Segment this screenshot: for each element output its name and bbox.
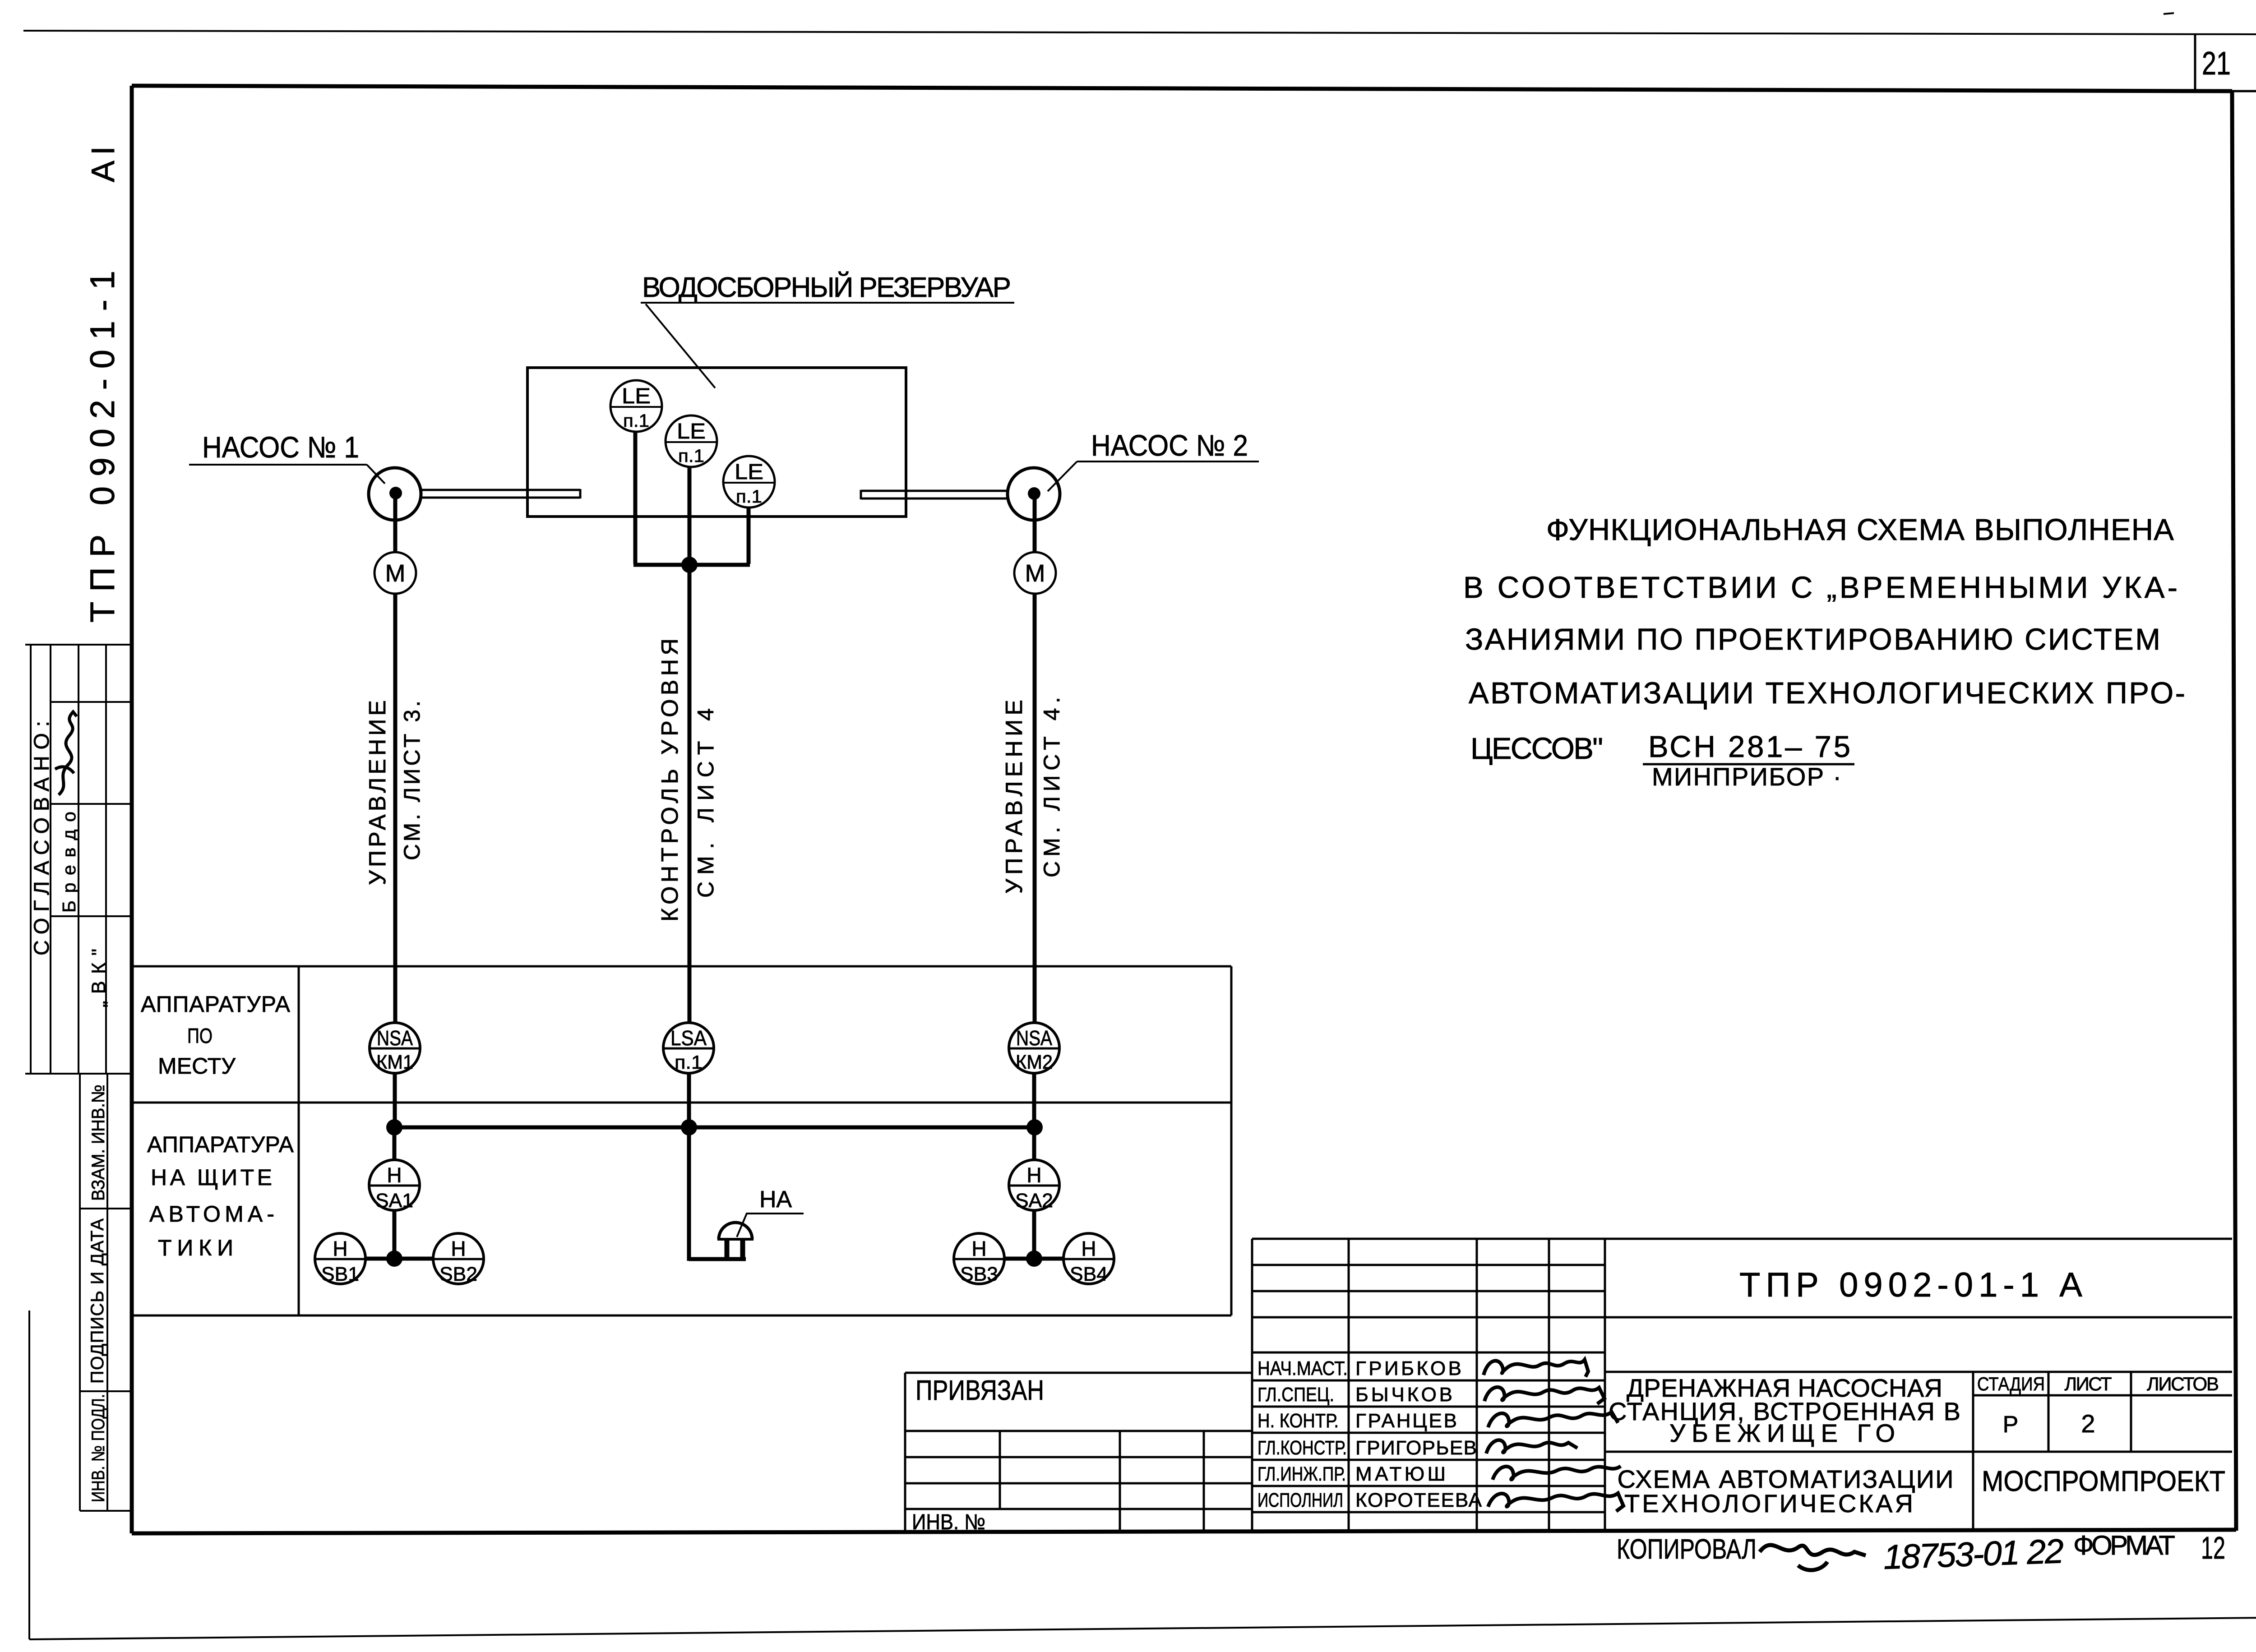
svg-text:АІ: АІ xyxy=(85,146,121,182)
wire motor M1 down xyxy=(393,594,398,1024)
svg-text:SA1: SA1 xyxy=(375,1190,413,1212)
button H SB2 xyxy=(433,1233,484,1285)
svg-text:LSA: LSA xyxy=(670,1026,707,1050)
svg-text:ИНВ. №: ИНВ. № xyxy=(912,1510,985,1534)
svg-text:Н: Н xyxy=(1081,1237,1096,1260)
svg-text:21: 21 xyxy=(2202,46,2231,82)
svg-text:ТЕХНОЛОГИЧЕСКАЯ: ТЕХНОЛОГИЧЕСКАЯ xyxy=(1624,1489,1913,1518)
wire SB3-SB4 xyxy=(1004,1257,1064,1261)
svg-text:2: 2 xyxy=(2081,1409,2095,1438)
svg-text:КОРОТЕЕВА: КОРОТЕЕВА xyxy=(1355,1489,1482,1511)
reservoir tank xyxy=(527,368,906,517)
svg-text:КОПИРОВАЛ: КОПИРОВАЛ xyxy=(1617,1534,1757,1565)
svg-text:Н: Н xyxy=(1026,1163,1041,1187)
wire LE1 drop xyxy=(633,431,638,564)
svg-text:АППАРАТУРА: АППАРАТУРА xyxy=(141,992,291,1017)
svg-text:УПРАВЛЕНИЕ: УПРАВЛЕНИЕ xyxy=(365,700,391,885)
button H SB3 xyxy=(954,1233,1004,1285)
instrument NSA KM1 xyxy=(370,1023,420,1073)
signature scribble Grigoriev xyxy=(1486,1440,1577,1454)
label Apparatura po mestu xyxy=(141,992,291,1079)
signature scribble Koroteeva xyxy=(1488,1493,1623,1511)
svg-text:SA2: SA2 xyxy=(1015,1190,1053,1212)
svg-text:УБЕЖИЩЕ ГО: УБЕЖИЩЕ ГО xyxy=(1669,1419,1895,1447)
motor M1 xyxy=(374,552,416,594)
svg-text:ТПР 0902-01-1 А: ТПР 0902-01-1 А xyxy=(1739,1266,2082,1304)
svg-text:Н А: Н А xyxy=(759,1186,792,1213)
level sensor LE p.1 (third) xyxy=(723,456,775,508)
svg-text:ТИКИ: ТИКИ xyxy=(158,1235,233,1260)
svg-text:ГРИГОРЬЕВ: ГРИГОРЬЕВ xyxy=(1355,1437,1477,1459)
switch H SA2 xyxy=(1009,1160,1059,1212)
svg-text:В СООТВЕТСТВИИ С „ВРЕМЕННЫМИ: В СООТВЕТСТВИИ С „ВРЕМЕННЫМИ УКА- xyxy=(1463,571,2177,605)
signature scribble Bychkov xyxy=(1484,1387,1604,1404)
svg-text:NSA: NSA xyxy=(377,1026,413,1050)
signature scribble Grantsev xyxy=(1488,1412,1618,1427)
svg-text:п.1: п.1 xyxy=(736,487,762,507)
wire level signal main drop xyxy=(688,565,692,1024)
wire SA2 to buttons xyxy=(1032,1210,1036,1259)
svg-text:LE: LE xyxy=(677,420,706,443)
pump P2 xyxy=(1008,468,1060,520)
button H SB1 xyxy=(315,1233,365,1285)
svg-text:ГЛ.СПЕЦ.: ГЛ.СПЕЦ. xyxy=(1257,1384,1334,1406)
svg-text:НАЧ.МАСТ.: НАЧ.МАСТ. xyxy=(1257,1357,1348,1380)
svg-text:КМ1: КМ1 xyxy=(376,1051,413,1073)
wire pump2 to motor xyxy=(1033,494,1037,553)
svg-text:СМ. ЛИСТ 3.: СМ. ЛИСТ 3. xyxy=(399,701,425,860)
svg-text:LE: LE xyxy=(735,460,763,484)
wire NSA KM1 to bus xyxy=(393,1073,397,1127)
svg-text:ЦЕССОВ": ЦЕССОВ" xyxy=(1470,732,1603,766)
node SB junction right xyxy=(1026,1251,1042,1267)
label Apparatura na shchite avtomatiki xyxy=(147,1132,294,1260)
svg-text:БЫЧКОВ: БЫЧКОВ xyxy=(1355,1384,1452,1406)
svg-text:ГРИБКОВ: ГРИБКОВ xyxy=(1355,1357,1461,1380)
signature scribble (approval) xyxy=(55,712,77,795)
svg-text:МАТЮШ: МАТЮШ xyxy=(1355,1463,1446,1485)
wire SA1 to buttons xyxy=(393,1210,397,1259)
svg-text:п.1: п.1 xyxy=(623,411,649,431)
svg-text:ТПР 0902-01-1: ТПР 0902-01-1 xyxy=(83,271,122,623)
label pump 2: Nasos No 2 xyxy=(1048,429,1259,491)
svg-text:НАСОС № 2: НАСОС № 2 xyxy=(1091,429,1248,462)
svg-text:Н: Н xyxy=(971,1237,986,1260)
pump P1 xyxy=(369,468,421,520)
wire SB1-SB2 xyxy=(365,1257,433,1261)
horn HA (sound alarm) xyxy=(717,1223,754,1260)
sheet number box 21 xyxy=(2164,13,2256,91)
svg-text:МОСПРОМПРОЕКТ: МОСПРОМПРОЕКТ xyxy=(1982,1465,2225,1497)
svg-text:ЛИСТОВ: ЛИСТОВ xyxy=(2147,1373,2219,1394)
svg-text:Н. КОНТР.: Н. КОНТР. xyxy=(1257,1410,1339,1432)
node bus-KM1 xyxy=(386,1119,402,1135)
svg-text:ПОДПИСЬ И ДАТА: ПОДПИСЬ И ДАТА xyxy=(88,1218,107,1384)
svg-text:ВСН 281– 75: ВСН 281– 75 xyxy=(1648,730,1850,764)
node junction dot xyxy=(681,557,698,573)
label pump 1: Nasos No 1 xyxy=(189,430,385,484)
svg-text:МИНПРИБОР ·: МИНПРИБОР · xyxy=(1652,762,1841,791)
svg-text:12: 12 xyxy=(2201,1530,2225,1565)
svg-text:АВТОМА-: АВТОМА- xyxy=(149,1201,274,1227)
wire motor M2 down xyxy=(1033,594,1037,1024)
svg-text:SB2: SB2 xyxy=(439,1263,477,1285)
svg-text:ВЗАМ. ИНВ.№: ВЗАМ. ИНВ.№ xyxy=(88,1084,108,1201)
wire junction bar under reservoir xyxy=(633,563,750,567)
svg-text:СМ. ЛИСТ 4: СМ. ЛИСТ 4 xyxy=(693,708,718,898)
svg-text:ГЛ.ИНЖ.ПР.: ГЛ.ИНЖ.ПР. xyxy=(1257,1463,1346,1485)
instrument LSA p.1 xyxy=(663,1023,714,1073)
svg-text:ГРАНЦЕВ: ГРАНЦЕВ xyxy=(1355,1410,1457,1432)
node bus-LSA xyxy=(681,1119,697,1135)
soglasovano sidebar table xyxy=(25,645,132,1074)
svg-text:М: М xyxy=(385,560,406,587)
lower sidebar strip xyxy=(80,1074,132,1511)
svg-text:SB1: SB1 xyxy=(321,1263,359,1285)
svg-text:ИСПОЛНИЛ: ИСПОЛНИЛ xyxy=(1257,1489,1343,1511)
label HA xyxy=(737,1186,804,1237)
level sensor LE p.1 (second) xyxy=(666,415,717,467)
wire pump1 to motor xyxy=(393,494,398,553)
switch H SA1 xyxy=(369,1160,420,1212)
wire LSA to horn xyxy=(689,1257,746,1261)
svg-text:АВТОМАТИЗАЦИИ ТЕХНОЛОГИЧЕСКИХ: АВТОМАТИЗАЦИИ ТЕХНОЛОГИЧЕСКИХ ПРО- xyxy=(1469,676,2185,710)
wire NSA KM2 to bus xyxy=(1032,1073,1036,1127)
svg-text:НАСОС № 1: НАСОС № 1 xyxy=(202,430,359,464)
svg-text:ЛИСТ: ЛИСТ xyxy=(2065,1373,2112,1394)
svg-text:ИНВ. № ПОДЛ.: ИНВ. № ПОДЛ. xyxy=(88,1394,108,1502)
wire LE3 drop xyxy=(747,507,751,564)
svg-text:LE: LE xyxy=(622,384,651,408)
svg-text:Р: Р xyxy=(2003,1412,2019,1438)
leader to reservoir xyxy=(646,304,715,388)
svg-text:Бревдо: Бревдо xyxy=(59,812,79,913)
signature table labels xyxy=(1257,1357,1482,1511)
pipe from pump 2 to reservoir xyxy=(861,490,1007,499)
svg-text:ГЛ.КОНСТР.: ГЛ.КОНСТР. xyxy=(1257,1437,1347,1459)
svg-text:МЕСТУ: МЕСТУ xyxy=(158,1053,236,1079)
svg-text:Н: Н xyxy=(387,1163,402,1187)
signature scribble Matyush xyxy=(1493,1466,1621,1480)
svg-text:УПРАВЛЕНИЕ: УПРАВЛЕНИЕ xyxy=(1001,700,1027,894)
svg-text:SB4: SB4 xyxy=(1070,1263,1108,1285)
svg-text:ВОДОСБОРНЫЙ РЕЗЕРВУАР: ВОДОСБОРНЫЙ РЕЗЕРВУАР xyxy=(642,272,1011,303)
svg-text:ФУНКЦИОНАЛЬНАЯ СХЕМА ВЫПОЛНЕ: ФУНКЦИОНАЛЬНАЯ СХЕМА ВЫПОЛНЕНА xyxy=(1546,513,2174,547)
svg-text:ФОРМАТ: ФОРМАТ xyxy=(2073,1530,2175,1560)
svg-text:ПРИВЯЗАН: ПРИВЯЗАН xyxy=(915,1375,1044,1406)
svg-text:п.1: п.1 xyxy=(675,1052,703,1073)
svg-text:КМ2: КМ2 xyxy=(1016,1051,1053,1073)
wire LE2 drop xyxy=(688,466,692,564)
pipe from pump 1 to reservoir xyxy=(420,489,580,498)
svg-text:Н: Н xyxy=(451,1237,466,1260)
wire panel bus xyxy=(394,1126,1035,1130)
wire bus to SA1 xyxy=(393,1127,397,1160)
svg-text:SB3: SB3 xyxy=(960,1263,998,1285)
svg-text:КОНТРОЛЬ УРОВНЯ: КОНТРОЛЬ УРОВНЯ xyxy=(657,638,683,922)
svg-text:АППАРАТУРА: АППАРАТУРА xyxy=(147,1132,294,1157)
level sensor LE p.1 (first) xyxy=(610,380,662,432)
button H SB4 xyxy=(1063,1233,1114,1285)
svg-text:Н: Н xyxy=(333,1237,347,1260)
svg-text:п.1: п.1 xyxy=(678,446,704,466)
wire bus to SA2 xyxy=(1032,1127,1036,1160)
svg-text:ЗАНИЯМИ ПО ПРОЕКТИРОВАНИЮ С: ЗАНИЯМИ ПО ПРОЕКТИРОВАНИЮ СИСТЕМ xyxy=(1465,623,2160,656)
svg-text:М: М xyxy=(1025,560,1045,587)
svg-text:NSA: NSA xyxy=(1016,1026,1052,1050)
wire LSA down xyxy=(687,1073,691,1261)
svg-text:СМ. ЛИСТ 4.: СМ. ЛИСТ 4. xyxy=(1039,697,1064,877)
node bus-KM2 xyxy=(1026,1119,1043,1135)
instrument NSA KM2 xyxy=(1009,1023,1059,1073)
motor M2 xyxy=(1014,552,1056,594)
signature scribble Gribkov xyxy=(1484,1360,1588,1377)
node SB junction left xyxy=(386,1251,402,1267)
svg-text:18753-01 22: 18753-01 22 xyxy=(1883,1532,2065,1577)
svg-text:НА ЩИТЕ: НА ЩИТЕ xyxy=(151,1165,272,1190)
svg-text:СТАДИЯ: СТАДИЯ xyxy=(1977,1373,2045,1394)
svg-text:ПО: ПО xyxy=(187,1024,213,1047)
copier signature scribble xyxy=(1760,1545,1866,1570)
